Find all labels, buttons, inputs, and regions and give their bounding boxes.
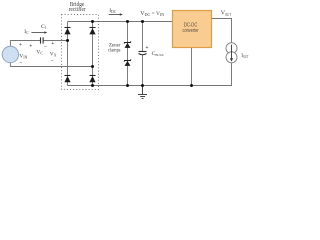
svg-text:VIN: VIN [19,53,27,59]
svg-text:VOUT: VOUT [221,11,232,17]
svg-text:+: + [29,44,32,50]
svg-text:−: − [44,44,47,50]
svg-text:clamps: clamps [108,48,121,54]
svg-text:rectifier: rectifier [69,6,86,13]
svg-text:CBULK: CBULK [152,51,165,57]
svg-text:VDC = VIN: VDC = VIN [140,11,164,17]
svg-text:+: + [19,42,22,48]
svg-text:VC: VC [36,49,43,55]
svg-text:IDC: IDC [109,8,117,14]
svg-text:−: − [51,59,54,65]
svg-text:−: − [20,60,23,66]
svg-text:+: + [51,41,54,47]
svg-text:+: + [145,45,148,51]
svg-text:C1: C1 [41,24,47,30]
svg-text:converter: converter [183,28,199,34]
svg-text:VX: VX [50,51,57,57]
svg-text:IOUT: IOUT [241,53,249,59]
svg-text:IC: IC [24,29,29,35]
